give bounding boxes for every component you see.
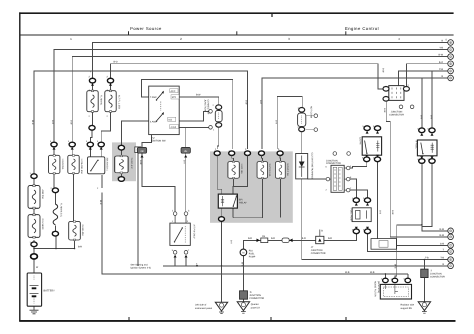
svg-text:Quarter: Quarter <box>251 303 259 306</box>
svg-text:IGNITION SW: IGNITION SW <box>151 139 166 142</box>
EFI relay bottom oval <box>219 217 225 222</box>
pin number sprinkle labels <box>30 84 430 281</box>
right edge terminal circle D2 <box>448 249 454 255</box>
svg-text:G-B: G-B <box>378 210 381 215</box>
wire bus L3 B-W full width <box>72 57 448 143</box>
wire battery junction row <box>34 236 75 254</box>
svg-text:JUNCTION: JUNCTION <box>391 110 403 113</box>
wire fusible link 1 chain <box>90 83 92 142</box>
fuse EFI box <box>228 161 239 179</box>
junction connector ref circle b <box>410 105 414 109</box>
fuel pump relay oval bottom 1 <box>419 159 425 164</box>
fuel pump relay box <box>417 140 437 156</box>
svg-text:C/OPN: C/OPN <box>358 137 361 145</box>
header column tick 2-3 <box>236 31 238 35</box>
svg-text:BATTERY: BATTERY <box>44 290 56 293</box>
junction connector side circle 2 <box>209 126 213 130</box>
junction dot battery row <box>55 248 57 250</box>
fuel pump relay oval bottom 2 <box>429 159 435 164</box>
wire bus L2 Y-B to fuse IGN <box>54 50 448 143</box>
letters in right circles top <box>450 41 452 267</box>
ignition switch box <box>149 86 180 135</box>
fusible link FL block 1 <box>87 90 98 112</box>
svg-text:ST2: ST2 <box>172 96 177 99</box>
fuel pump resistor oval top 1 <box>353 198 359 203</box>
right edge terminal circle E2 <box>448 257 454 263</box>
wire branch to fuel pump relay right <box>431 71 433 128</box>
wire relay branch to noise filter <box>395 225 422 278</box>
junction connector oval TL <box>383 87 389 92</box>
inline connector arrow right <box>289 239 292 243</box>
svg-text:T-B: T-B <box>425 257 429 260</box>
svg-text:2E: 2E <box>184 150 187 153</box>
connector oval below FL1 <box>89 125 95 130</box>
right edge terminal circle C2 <box>448 243 454 249</box>
header rule line <box>20 34 454 36</box>
svg-text:B-R: B-R <box>274 120 277 124</box>
arrow co relay 2 <box>376 131 379 134</box>
circuit opening relay box <box>362 137 381 155</box>
page frame top border <box>19 12 453 14</box>
header column tick 1-2 <box>128 31 130 35</box>
svg-text:B-R: B-R <box>328 237 332 240</box>
wire branch ST down to connector 2E <box>185 127 187 146</box>
svg-text:P-B: P-B <box>439 68 443 71</box>
wire fuel pump relay out bridge <box>422 163 432 226</box>
arrow row 1 <box>53 147 56 150</box>
wire connector 2B to starter circle <box>142 154 175 212</box>
svg-text:Left side of: Left side of <box>195 304 207 307</box>
fuel pump resistor box <box>352 208 371 222</box>
svg-text:EFI: EFI <box>239 198 243 201</box>
arrow starter 2 <box>185 255 188 258</box>
svg-text:W-B: W-B <box>345 271 350 274</box>
svg-text:2B: 2B <box>140 150 143 153</box>
arrow fp relay 2 <box>431 133 434 136</box>
svg-text:JUNCTION: JUNCTION <box>311 249 323 252</box>
DLC pin right 1 <box>344 166 350 170</box>
svg-text:Y-B: Y-B <box>439 47 443 50</box>
ignition switch dashed link <box>160 102 162 111</box>
connector oval fusible link 2 top <box>107 78 113 83</box>
wire junction connector 7 to ground <box>423 278 425 302</box>
wire branch to fuel pump relay left <box>421 78 423 128</box>
svg-text:W-B: W-B <box>394 264 397 269</box>
wire DLC pin2 to resistor oval <box>350 179 356 198</box>
svg-text:4 IG2: 4 IG2 <box>171 126 177 129</box>
svg-text:B-O: B-O <box>259 100 262 104</box>
wire ignition AM1 to ACC fuse <box>121 121 148 145</box>
ground battery <box>30 308 39 314</box>
svg-text:2.0L MAIN: 2.0L MAIN <box>41 219 44 230</box>
diode box <box>296 154 308 179</box>
junction connector D block <box>240 291 248 299</box>
svg-text:B-R: B-R <box>302 237 306 240</box>
starter switch circle 1 <box>172 210 177 216</box>
inline noise box 2 <box>282 238 289 243</box>
wire battery to ground <box>33 306 35 308</box>
svg-text:FUEL: FUEL <box>249 252 256 255</box>
right edge terminal circle A2 <box>448 228 454 234</box>
ignition pin IG1 box <box>168 117 176 121</box>
svg-text:(IGNITION): (IGNITION) <box>377 281 380 293</box>
bottom border tick c <box>345 317 347 320</box>
starter relay block wide <box>88 157 105 174</box>
wire bus L6 ignition AM2 feed <box>142 79 233 149</box>
ignition pin ACC box <box>170 89 178 93</box>
svg-text:B-Y: B-Y <box>183 160 186 164</box>
shaded relay block region (center) <box>210 151 293 222</box>
arrow fp res b1 <box>355 227 358 230</box>
fuel pump resistor oval bottom 1 <box>353 229 359 234</box>
svg-text:instrument panel: instrument panel <box>195 307 212 310</box>
circuit opening relay oval top 1 <box>364 126 370 131</box>
right edge terminal circle B top <box>448 40 454 46</box>
svg-text:ACC: ACC <box>171 90 176 93</box>
wire riser junction connector to bus y63.7 <box>406 64 447 87</box>
arrow row 4 <box>100 147 103 150</box>
fusible link FL MAIN wavy <box>53 204 58 225</box>
inline connector arrow left <box>257 239 260 243</box>
inline noise box 1 <box>261 238 268 243</box>
wire bus L4 B-O to fusible link 2 and junction connector <box>111 64 384 89</box>
fuse AM1 lower box <box>69 221 81 241</box>
circuit opening relay oval bottom 1 <box>364 157 370 162</box>
svg-text:CONNECTOR: CONNECTOR <box>311 252 326 255</box>
junction dot starting line b <box>196 265 198 267</box>
svg-text:B-O: B-O <box>439 61 443 64</box>
svg-text:CONNECTOR: CONNECTOR <box>207 100 210 115</box>
svg-text:JUNCTION: JUNCTION <box>326 159 338 162</box>
small box above bottom line <box>371 239 396 250</box>
arrow fusible link 1 <box>91 83 94 86</box>
J7 riser stub <box>319 230 321 237</box>
svg-text:ALT FL 1.25B: ALT FL 1.25B <box>117 95 120 109</box>
svg-text:CONNECTOR: CONNECTOR <box>249 297 264 300</box>
starter switch wires to box <box>175 216 186 224</box>
wire bus L5 P-B battery feed <box>34 71 248 174</box>
arrow co relay b2 <box>376 155 379 158</box>
connector oval left column top <box>31 174 37 179</box>
svg-text:7 AM2: 7 AM2 <box>150 96 157 99</box>
top border section tick <box>271 14 273 17</box>
arrow co relay b1 <box>365 155 368 158</box>
svg-text::D: :D <box>249 291 252 294</box>
tag 1F on gray edge <box>135 147 141 153</box>
bottom border tick b <box>270 317 272 320</box>
junction dot relay out <box>421 224 423 226</box>
svg-text:CONNECTOR: CONNECTOR <box>430 276 445 279</box>
wire circuit opening relay out to terminal C <box>378 161 448 245</box>
connector oval row 1 <box>51 142 57 147</box>
svg-text:H-FUEL: H-FUEL <box>414 141 417 150</box>
wire oval5 feed from MFI riser <box>277 97 302 149</box>
arrow fp relay b2 <box>431 156 434 159</box>
right edge terminal circle P-B <box>448 68 454 74</box>
arrow fp res b2 <box>366 227 369 230</box>
junction connector hatched block <box>389 86 404 101</box>
wire ignition bottom out to connector 2B <box>142 135 152 147</box>
wire fusible link 2 chain <box>101 83 110 142</box>
shaded fuse region (left) <box>112 142 136 181</box>
wire fuel pump relay out to terminal A <box>422 163 448 231</box>
svg-text:30A AM 30-1: 30A AM 30-1 <box>105 158 108 172</box>
header column tick 3-4 <box>345 31 347 35</box>
svg-text:1 IGN 30A: 1 IGN 30A <box>61 159 64 170</box>
junction dot starting line <box>221 265 223 267</box>
svg-text:3 ETCS 10A: 3 ETCS 10A <box>268 164 271 177</box>
arrow fp relay b1 <box>420 156 423 159</box>
junction connector oval BL <box>383 97 389 102</box>
wire connector 2E to starter circle <box>185 154 187 212</box>
DLC pin right 2 <box>344 177 350 181</box>
wire ignition output ST to junction connector side <box>179 126 208 128</box>
MFI side circle 1 <box>314 114 318 118</box>
right edge terminal circle B low <box>448 75 454 81</box>
connector oval ACC top <box>118 145 124 150</box>
arrow fp res 1 <box>355 203 358 206</box>
svg-text:FL MAIN1: FL MAIN1 <box>99 95 102 106</box>
fuse ETCS box <box>257 161 267 179</box>
noise filter box <box>380 284 411 299</box>
wire battery main <box>33 259 35 273</box>
svg-text:panel LH: panel LH <box>251 306 261 309</box>
bottom border tick a <box>128 317 130 320</box>
arrow below 2B <box>141 155 144 158</box>
wire fuse row to lower components <box>54 147 121 221</box>
svg-text:W-B: W-B <box>99 200 102 205</box>
wire fuel pump to junction connector D <box>242 256 244 291</box>
svg-text:T-B: T-B <box>440 257 444 260</box>
gray box internal wires <box>217 156 280 218</box>
arrow row 3 <box>89 147 92 150</box>
EFI main relay oval 4 <box>259 151 265 156</box>
wire EFI relay ground <box>221 221 223 302</box>
wire branch to junction connector 7 <box>423 260 425 270</box>
J7 junction connector inline <box>316 236 324 243</box>
wire DLC pin3 to resistor oval <box>350 190 368 198</box>
MFI indicator component <box>298 108 306 132</box>
wire junction connector D to ground <box>242 299 244 302</box>
svg-text:B-R: B-R <box>78 246 82 249</box>
svg-text:W-B: W-B <box>370 271 375 274</box>
wire 1F tag down <box>137 153 139 266</box>
DLC pin right 3 <box>344 188 350 192</box>
svg-text:AM2 30A: AM2 30A <box>41 190 44 200</box>
connector oval battery column <box>31 242 37 247</box>
svg-text:B-O: B-O <box>114 61 118 64</box>
junction dot battery feed left <box>33 248 35 250</box>
right edge terminal circle B2 <box>448 234 454 240</box>
junction connector vertical near ignition <box>215 105 222 127</box>
svg-text:PUMP: PUMP <box>249 255 256 258</box>
fusible link MAIN box <box>28 214 40 238</box>
svg-text:1 EFI 15A: 1 EFI 15A <box>240 164 243 175</box>
svg-text:B-R: B-R <box>248 237 252 240</box>
svg-text:1 CM AM1 40A: 1 CM AM1 40A <box>80 159 83 175</box>
svg-text:B-R: B-R <box>419 115 422 119</box>
fuse IGN box <box>49 155 60 174</box>
page frame bottom border <box>19 320 455 322</box>
park neutral switch box <box>170 223 190 245</box>
svg-text:G: G <box>450 77 452 80</box>
battery box <box>27 273 41 306</box>
wire circuit opening relay left out to DLC pin <box>350 161 367 168</box>
svg-text:W-B: W-B <box>241 262 244 267</box>
svg-text:2 AM1 40A: 2 AM1 40A <box>81 225 84 237</box>
arrow fp res 2 <box>366 203 369 206</box>
fuel pump relay oval top 2 <box>429 128 435 133</box>
connector oval fusible link 1 top <box>89 78 95 83</box>
junction connector 7 block <box>421 269 428 278</box>
arrow below 2E <box>184 155 187 158</box>
wire ignition output B-W to junction connector <box>179 97 219 105</box>
connector oval ACC bottom <box>118 177 124 182</box>
svg-text:9 OBD 7.5A: 9 OBD 7.5A <box>286 164 289 177</box>
noise filter ignition ovals <box>383 278 389 282</box>
arrow row 2 <box>71 147 74 150</box>
wire fuel pump resistor out to terminal D <box>368 234 448 252</box>
svg-text:Ignition System 4-2): Ignition System 4-2) <box>131 267 152 270</box>
svg-text:CONNECTOR: CONNECTOR <box>326 162 341 165</box>
circuit opening relay oval bottom 2 <box>374 157 380 162</box>
wire noise filter drop 3 <box>407 274 409 278</box>
connector 2B inline <box>137 147 146 153</box>
svg-text:W-B: W-B <box>31 120 34 125</box>
svg-text:Radiator side: Radiator side <box>401 304 415 307</box>
svg-text:Power Source: Power Source <box>130 26 162 31</box>
fuel pump relay oval top 1 <box>419 128 425 133</box>
right edge terminal circle B-O <box>448 61 454 67</box>
svg-text:support RH: support RH <box>401 307 413 310</box>
page frame left border <box>19 12 21 321</box>
arrow fusible link 2 <box>109 83 112 86</box>
DLC connector block <box>331 165 344 192</box>
ground radiator support <box>418 302 430 313</box>
junction connector ref circle a <box>399 105 403 109</box>
wire diode box output long run to terminal E <box>302 179 448 260</box>
MFI side circle 2 <box>314 128 318 132</box>
EFI main relay oval 3 <box>245 151 251 156</box>
svg-text:NOT CONN: NOT CONN <box>309 106 312 119</box>
fuel pump resistor oval top 2 <box>364 198 370 203</box>
DLC pin left <box>326 177 331 181</box>
svg-text:See Starting and: See Starting and <box>131 263 149 266</box>
EFI relay box <box>218 194 237 208</box>
svg-text:JUNCTION: JUNCTION <box>249 294 261 297</box>
junction connector side circle 1 <box>209 110 213 114</box>
svg-text:JUNCTION: JUNCTION <box>204 100 207 112</box>
fusible link AM2 box <box>28 185 40 209</box>
connector oval row 4 <box>98 142 104 147</box>
wire FL MAIN chain <box>34 179 55 232</box>
svg-text:Engine Control: Engine Control <box>345 26 379 31</box>
DLC ref circle 1 <box>333 152 337 156</box>
svg-text:B-R: B-R <box>271 237 275 240</box>
wire junction connector down to EFI main oval <box>217 127 219 149</box>
svg-text:B-R: B-R <box>430 115 433 119</box>
fuel pump <box>240 249 247 256</box>
wire MFI lamp to diode box <box>301 132 303 154</box>
small box inner <box>379 241 388 248</box>
wire fuel pump line B-R <box>243 234 356 250</box>
svg-text:J: J <box>450 250 451 253</box>
fuse AM1 box <box>68 155 79 174</box>
junction dot jc7 <box>424 259 426 261</box>
EFI main relay oval 2 <box>229 151 235 156</box>
connector oval battery bold <box>31 254 38 259</box>
arrow starter 1 <box>174 255 177 258</box>
right edge terminal circle F2 <box>448 263 454 269</box>
svg-text:M: M <box>242 252 244 255</box>
arrow fp relay 1 <box>420 133 423 136</box>
wire riser junction connector to bus y71 <box>399 71 448 86</box>
wire bus L1 B to fusible link 1 <box>93 43 448 79</box>
wire noise filter drop 1 <box>384 274 386 278</box>
fuel pump resistor oval bottom 2 <box>364 229 370 234</box>
svg-text:B-R: B-R <box>51 120 54 124</box>
wire starter circle risers <box>175 258 186 266</box>
arrow co relay 1 <box>366 131 369 134</box>
ground left side instrument panel <box>215 302 227 313</box>
DLC ref circle 2 <box>347 152 351 156</box>
circuit opening relay oval top 2 <box>374 126 380 131</box>
ignition switch contact 1 <box>156 91 164 101</box>
junction connector oval TR <box>403 87 409 92</box>
starter switch circle 2 <box>184 210 190 216</box>
connector 2E inline <box>181 147 190 153</box>
fuse ACC gray box <box>115 155 128 173</box>
wire ignition output IG to junction connector side <box>179 111 208 121</box>
svg-text:RELAY: RELAY <box>239 201 247 204</box>
svg-text:NOISE FILTER: NOISE FILTER <box>374 281 377 297</box>
svg-text:FUEL PUMP: FUEL PUMP <box>349 209 352 223</box>
svg-text:C12 DAYTIME RUNNING: C12 DAYTIME RUNNING <box>311 153 314 179</box>
svg-text:JUNCTION: JUNCTION <box>430 273 442 276</box>
EFI main relay oval 5 <box>277 151 283 156</box>
wire W-B main ground bus <box>102 192 408 274</box>
svg-text:4 AM1: 4 AM1 <box>150 120 157 123</box>
junction dot noise drop1 <box>385 273 387 275</box>
wire bus L6b right segment to EFI No.2 <box>262 78 448 149</box>
svg-text:7 ACC-B 2: 7 ACC-B 2 <box>130 158 133 170</box>
wire DLC left pin to diode box <box>308 178 326 180</box>
svg-text:G: G <box>450 230 452 233</box>
wire junction connector right drop B-W to terminal B <box>386 101 448 237</box>
wire starting system run to terminal F <box>163 265 448 267</box>
svg-text:*: * <box>90 71 91 74</box>
right edge terminal circle Y-B <box>448 47 454 53</box>
svg-text:A/T:P,N ONLY: A/T:P,N ONLY <box>192 225 195 240</box>
connector oval row 3 <box>87 142 93 147</box>
EFI main relay oval 1 <box>214 151 220 156</box>
connector oval row 2 <box>69 142 75 147</box>
junction dot am1 row <box>74 248 76 250</box>
connector oval FL MAIN top <box>52 188 58 193</box>
fuse OBD box <box>276 161 286 179</box>
svg-text:CONNECTOR: CONNECTOR <box>389 113 404 116</box>
MFI side stubs <box>306 116 314 130</box>
ignition switch contact 2 <box>156 112 164 122</box>
starter bottom circle 1 <box>173 251 177 255</box>
ground quarter panel <box>237 302 249 313</box>
svg-text:B-Y: B-Y <box>230 240 233 244</box>
starter bottom circle 2 <box>184 251 188 255</box>
fusible link FL block 2 <box>105 90 116 112</box>
svg-text:FL MAIN 2.0L: FL MAIN 2.0L <box>60 203 63 218</box>
right edge terminal circle B-W <box>448 54 454 60</box>
ignition pin IG2 box <box>170 124 179 128</box>
